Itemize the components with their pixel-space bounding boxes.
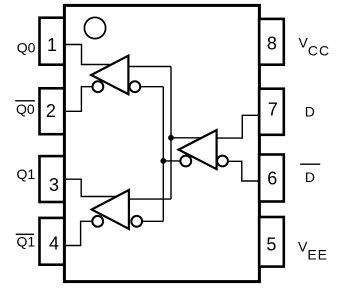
junction dot complement output (160, 158, 166, 164)
wire buffer A true input (128, 66, 171, 68)
buffer U1A output bubble (93, 81, 104, 92)
receiver U1C inverted input bubble (217, 156, 228, 167)
label Dbar overline (300, 163, 320, 165)
svg-text:Q1: Q1 (17, 233, 36, 249)
pin 8 box (259, 19, 284, 65)
svg-text:1: 1 (47, 35, 57, 55)
pin 7 box (259, 89, 284, 135)
pin 1 indicator circle (84, 17, 105, 38)
svg-text:8: 8 (267, 34, 277, 54)
label Q1bar overline (16, 233, 34, 235)
wire buffer B inverting input (142, 220, 163, 222)
wire buffer B true input (129, 198, 171, 200)
wire receiver true output (171, 137, 202, 139)
wire receiver complement output (163, 160, 180, 162)
buffer U1B input bubble (131, 216, 142, 227)
svg-text:Q1: Q1 (17, 166, 36, 182)
buffer U1A triangle (91, 56, 128, 94)
svg-text:4: 4 (49, 233, 59, 253)
wire buffer A inverting input (140, 86, 163, 88)
pin 6 box (259, 155, 284, 202)
junction dot true output (168, 135, 174, 141)
wire pin3 to buffer B output (66, 179, 118, 196)
svg-text:D: D (305, 169, 315, 185)
IC body U1 (64, 5, 259, 281)
wire pin1 to buffer A output (66, 45, 113, 65)
receiver U1C inverted output bubble (180, 156, 191, 167)
wire pin2 to buffer A inverted output (66, 87, 93, 112)
svg-text:Q0: Q0 (16, 101, 35, 117)
buffer U1B triangle (92, 190, 129, 229)
wire complement bus vertical (162, 87, 164, 222)
svg-text:5: 5 (266, 235, 276, 255)
pin 2 box (40, 88, 65, 134)
svg-text:D: D (305, 104, 315, 120)
pin 1 box (40, 18, 65, 65)
wire Dbar input pin6 to receiver bubble (228, 161, 259, 181)
svg-text:Q0: Q0 (17, 40, 36, 56)
svg-text:6: 6 (267, 169, 277, 189)
pin 5 box (259, 217, 284, 267)
buffer U1A input bubble (130, 81, 141, 92)
buffer U1B output bubble (92, 216, 103, 227)
label Q0bar overline (15, 100, 35, 102)
wire D input pin7 to receiver (217, 115, 259, 138)
pin 4 box (40, 218, 65, 265)
input receiver U1C triangle (179, 130, 217, 169)
svg-text:3: 3 (49, 175, 59, 195)
svg-text:2: 2 (46, 101, 56, 121)
pin 3 box (40, 156, 65, 202)
wire pin4 to buffer B inverted output (66, 221, 93, 245)
wire true bus vertical (170, 67, 172, 200)
svg-text:7: 7 (268, 99, 278, 119)
